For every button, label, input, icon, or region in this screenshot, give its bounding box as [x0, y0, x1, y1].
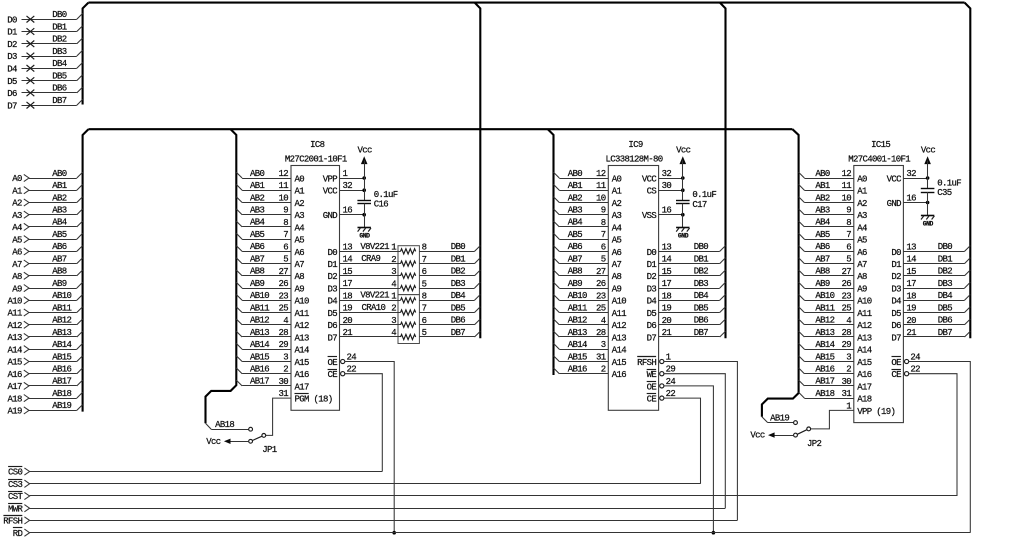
svg-text:23: 23 [596, 291, 606, 301]
port A8 / net AB8 entry [12, 267, 82, 282]
svg-text:27: 27 [596, 267, 606, 277]
svg-text:Vcc: Vcc [206, 437, 221, 447]
svg-text:0.1uF: 0.1uF [692, 190, 716, 200]
svg-text:31: 31 [596, 353, 606, 363]
IC15 pin 21 (D7) / net DB7 to data bus [891, 328, 970, 344]
port CS3 signal wire [8, 480, 700, 490]
svg-text:A11: A11 [295, 309, 310, 319]
svg-text:AB13: AB13 [568, 328, 587, 338]
address bus left vertical [83, 129, 89, 411]
port A2 / net AB2 entry [12, 193, 82, 208]
svg-text:7: 7 [283, 230, 288, 240]
no-connect X on D1 [27, 28, 35, 35]
svg-text:13: 13 [343, 242, 353, 252]
IC8 pin 18 (D4) wire to resistor [327, 291, 400, 306]
resistor CRA9 element pin 2 to pin 7 [391, 255, 426, 266]
svg-text:OE: OE [891, 358, 901, 368]
svg-text:D2: D2 [7, 40, 17, 50]
svg-text:M27C4001-10F1: M27C4001-10F1 [848, 154, 910, 164]
svg-text:A0: A0 [12, 174, 22, 184]
IC8 pin 5 (A7) wire from AB7 [236, 254, 304, 270]
svg-text:A9: A9 [295, 285, 305, 295]
svg-text:VPP (19): VPP (19) [857, 407, 895, 417]
svg-text:AB5: AB5 [815, 230, 830, 240]
IC IC15 body [854, 166, 904, 423]
IC15 pin 19 (D5) / net DB5 to data bus [891, 303, 970, 319]
svg-text:30: 30 [841, 377, 851, 387]
svg-text:GND: GND [359, 233, 370, 240]
IC9 pin 19 (D5) / net DB5 to data bus [647, 303, 726, 319]
svg-text:AB14: AB14 [568, 340, 587, 350]
svg-text:A0: A0 [857, 174, 867, 184]
svg-text:DB1: DB1 [451, 254, 466, 264]
svg-text:6: 6 [283, 242, 288, 252]
svg-text:5: 5 [846, 255, 851, 265]
svg-text:1: 1 [391, 243, 396, 253]
svg-text:Vcc: Vcc [676, 146, 691, 156]
svg-text:28: 28 [278, 328, 288, 338]
no-connect X on D7 [27, 102, 35, 109]
IC9 pin 23 (A10) wire from AB10 [554, 291, 627, 307]
svg-text:CRA10: CRA10 [362, 303, 386, 313]
svg-text:AB10: AB10 [568, 291, 587, 301]
svg-text:A9: A9 [612, 285, 622, 295]
svg-text:AB4: AB4 [568, 218, 583, 228]
svg-text:D0: D0 [647, 248, 657, 258]
IC8 pin 2 (A16) wire from AB16 [236, 365, 309, 381]
node D4 / net DB4 entry [7, 59, 82, 74]
svg-text:AB15: AB15 [815, 352, 834, 362]
svg-text:DB3: DB3 [52, 47, 67, 57]
svg-text:AB8: AB8 [52, 267, 67, 277]
svg-text:DB3: DB3 [938, 279, 953, 289]
svg-text:AB17: AB17 [250, 377, 269, 387]
IC9 pin 2 (A16) wire from AB16 [554, 365, 627, 381]
IC9 pin 6 (A6) wire from AB6 [554, 242, 622, 258]
svg-text:9: 9 [846, 206, 851, 216]
svg-text:AB14: AB14 [52, 340, 71, 350]
svg-text:A11: A11 [857, 309, 872, 319]
IC8 pin 24 (OE) wire to RD [327, 353, 394, 533]
IC15 pin 29 (A14) wire from AB14 [799, 340, 872, 356]
resistor network CRA10 body (V8V221) [398, 295, 419, 344]
svg-text:D5: D5 [891, 309, 901, 319]
data bus DB[0..7] top horizontal [88, 2, 964, 4]
svg-text:CS: CS [647, 187, 657, 197]
svg-text:AB4: AB4 [815, 218, 830, 228]
svg-text:DB6: DB6 [694, 316, 709, 326]
svg-text:A6: A6 [857, 248, 867, 258]
IC8 pin 7 (A5) wire from AB5 [236, 230, 304, 246]
svg-text:A10: A10 [8, 297, 23, 307]
svg-text:2: 2 [283, 365, 288, 375]
address bus branch to IC15 with AB19 tail [762, 129, 799, 417]
svg-text:A1: A1 [857, 187, 867, 197]
svg-text:27: 27 [841, 267, 851, 277]
svg-text:10: 10 [278, 194, 288, 204]
svg-text:9: 9 [283, 206, 288, 216]
IC9 pin 17 (D3) / net DB3 to data bus [647, 279, 726, 295]
IC9 pin 8 (A4) wire from AB4 [554, 218, 622, 234]
svg-text:DB6: DB6 [451, 316, 466, 326]
IC15 pin 7 (A5) wire from AB5 [799, 230, 867, 246]
svg-text:AB9: AB9 [815, 279, 830, 289]
svg-text:32: 32 [662, 169, 672, 179]
svg-text:D1: D1 [7, 28, 17, 38]
IC15 pin 11 (A1) wire from AB1 [799, 181, 867, 197]
svg-text:A3: A3 [12, 211, 22, 221]
IC15 pin 3 (A15) wire from AB15 [799, 352, 872, 368]
capacitor C16 0.1uF [357, 190, 397, 215]
svg-text:D4: D4 [7, 65, 17, 75]
node D7 / net DB7 entry [7, 96, 82, 111]
IC8 pin 15 (D2) wire to resistor [327, 267, 400, 282]
svg-text:OE: OE [327, 358, 337, 368]
svg-text:DB1: DB1 [938, 254, 953, 264]
ground symbol GND at IC9 [676, 215, 690, 240]
data bus drop to IC9 [720, 3, 726, 339]
svg-text:OE: OE [647, 382, 657, 392]
IC15 pin 26 (A9) wire from AB9 [799, 279, 867, 295]
svg-text:7: 7 [846, 230, 851, 240]
svg-text:DB5: DB5 [451, 303, 466, 313]
svg-text:A15: A15 [857, 358, 872, 368]
svg-text:Vcc: Vcc [750, 431, 765, 441]
svg-text:AB18: AB18 [815, 389, 834, 399]
svg-text:A14: A14 [8, 345, 23, 355]
svg-text:AB1: AB1 [815, 181, 830, 191]
svg-text:D6: D6 [327, 321, 337, 331]
svg-text:26: 26 [841, 279, 851, 289]
svg-text:30: 30 [662, 181, 672, 191]
svg-text:A16: A16 [612, 370, 627, 380]
svg-text:A4: A4 [612, 223, 622, 233]
svg-text:2: 2 [846, 365, 851, 375]
svg-text:AB6: AB6 [52, 242, 67, 252]
IC15 pin 22 (CE) wire to CST [891, 365, 957, 496]
svg-text:A4: A4 [295, 223, 305, 233]
svg-text:GND: GND [323, 211, 338, 221]
svg-text:AB11: AB11 [52, 303, 71, 313]
svg-text:AB1: AB1 [568, 181, 583, 191]
IC8 pin 31 (PGM) wire to JP1 [266, 389, 333, 435]
svg-text:D1: D1 [647, 260, 657, 270]
svg-text:2: 2 [391, 255, 396, 265]
svg-text:DB3: DB3 [694, 279, 709, 289]
IC9 pin 28 (A13) wire from AB13 [554, 328, 627, 344]
IC15 pin 18 (D4) / net DB4 to data bus [891, 291, 970, 307]
svg-text:GND: GND [923, 221, 934, 228]
resistor CRA10 element pin 4 to pin 5 [391, 328, 426, 339]
svg-text:DB6: DB6 [938, 316, 953, 326]
svg-text:Vcc: Vcc [921, 146, 936, 156]
net DB1 wire from resistor to data bus [419, 254, 480, 264]
IC15 pin 27 (A8) wire from AB8 [799, 267, 867, 283]
svg-text:DB7: DB7 [938, 328, 953, 338]
port A17 / net AB17 entry [8, 377, 83, 392]
svg-text:A13: A13 [612, 333, 627, 343]
IC8 pin 29 (A14) wire from AB14 [236, 340, 309, 356]
svg-text:A1: A1 [612, 187, 622, 197]
IC8 pin 23 (A10) wire from AB10 [236, 291, 309, 307]
svg-text:D0: D0 [891, 248, 901, 258]
svg-text:AB11: AB11 [568, 303, 587, 313]
svg-text:A2: A2 [12, 199, 22, 209]
svg-text:5: 5 [283, 255, 288, 265]
svg-text:AB15: AB15 [52, 352, 71, 362]
IC15 pin 30 (A17) wire from AB17 [799, 377, 872, 393]
ground symbol GND at IC15 [921, 203, 935, 228]
svg-text:12: 12 [841, 169, 851, 179]
IC9 pin 5 (A7) wire from AB7 [554, 254, 622, 270]
no-connect X on D6 [27, 90, 35, 97]
svg-text:JP2: JP2 [807, 439, 822, 449]
svg-text:D6: D6 [891, 321, 901, 331]
svg-text:A8: A8 [857, 272, 867, 282]
IC8 pin 26 (A9) wire from AB9 [236, 279, 304, 295]
svg-text:AB2: AB2 [250, 193, 265, 203]
IC8 pin 14 (D1) wire to resistor [327, 255, 400, 270]
no-connect X on D0 [27, 16, 35, 23]
svg-text:V8V221: V8V221 [360, 291, 389, 301]
IC8 pin 17 (D3) wire to resistor [327, 279, 400, 294]
port RFSH signal wire [3, 516, 737, 527]
svg-text:DB7: DB7 [451, 328, 466, 338]
svg-text:23: 23 [841, 291, 851, 301]
net DB5 wire from resistor to data bus [419, 303, 480, 313]
svg-text:A0: A0 [612, 174, 622, 184]
IC15 pin 10 (A2) wire from AB2 [799, 193, 867, 209]
ground symbol GND at IC8 [358, 215, 372, 240]
svg-text:AB5: AB5 [250, 230, 265, 240]
svg-text:DB0: DB0 [938, 242, 953, 252]
IC IC8 body [291, 166, 340, 411]
svg-text:CE: CE [891, 370, 901, 380]
svg-text:17: 17 [906, 279, 916, 289]
address bus branch to IC8 with AB18 tail [206, 129, 237, 423]
net DB6 wire from resistor to data bus [419, 316, 480, 326]
IC8 pin 8 (A4) wire from AB4 [236, 218, 304, 234]
svg-text:D3: D3 [891, 285, 901, 295]
svg-text:17: 17 [343, 279, 353, 289]
svg-text:AB7: AB7 [52, 254, 67, 264]
port MWR signal wire [8, 504, 725, 515]
svg-text:AB0: AB0 [52, 169, 67, 179]
svg-text:A5: A5 [857, 236, 867, 246]
svg-text:AB17: AB17 [815, 377, 834, 387]
svg-text:30: 30 [278, 377, 288, 387]
net DB3 wire from resistor to data bus [419, 279, 480, 289]
address bus AB18 tap entry [206, 423, 212, 429]
svg-text:VCC: VCC [887, 174, 903, 184]
svg-text:25: 25 [278, 304, 288, 314]
resistor CRA10 element pin 3 to pin 6 [391, 316, 426, 327]
svg-text:A13: A13 [8, 333, 23, 343]
IC9 pin 22 (CE) wire to CS3 [647, 389, 701, 484]
svg-text:M27C2001-10F1: M27C2001-10F1 [285, 154, 347, 164]
svg-text:DB7: DB7 [694, 328, 709, 338]
svg-text:AB6: AB6 [568, 242, 583, 252]
svg-text:AB9: AB9 [52, 279, 67, 289]
svg-text:AB7: AB7 [250, 254, 265, 264]
svg-text:A10: A10 [612, 297, 627, 307]
net DB7 wire from resistor to data bus [419, 328, 480, 338]
svg-text:CE: CE [327, 370, 337, 380]
svg-text:A16: A16 [857, 370, 872, 380]
svg-text:AB14: AB14 [815, 340, 834, 350]
IC8 pin 10 (A2) wire from AB2 [236, 193, 304, 209]
power Vcc symbol at IC8 [357, 146, 372, 201]
address bus AB19 tap entry [762, 417, 768, 423]
node D6 / net DB6 entry [7, 84, 82, 99]
IC8 pin 19 (D5) wire to resistor [327, 304, 400, 319]
IC IC9 body [608, 166, 658, 411]
IC9 pin 30 (CS) [647, 181, 685, 196]
port A9 / net AB9 entry [12, 279, 82, 294]
svg-text:D0: D0 [327, 248, 337, 258]
IC9 pin 4 (A12) wire from AB12 [554, 316, 627, 332]
port A0 / net AB0 entry [12, 169, 82, 184]
port A16 / net AB16 entry [8, 365, 83, 380]
svg-text:AB11: AB11 [815, 303, 834, 313]
svg-text:7: 7 [601, 230, 606, 240]
resistor CRA9 element pin 1 to pin 8 [391, 243, 426, 254]
svg-text:PGM (18): PGM (18) [295, 395, 333, 405]
svg-text:AB12: AB12 [815, 316, 834, 326]
svg-text:AB17: AB17 [52, 377, 71, 387]
power Vcc symbol at IC9 [676, 146, 691, 201]
svg-text:AB8: AB8 [815, 267, 830, 277]
IC9 pin 21 (D7) / net DB7 to data bus [647, 328, 726, 344]
IC9 pin 13 (D0) / net DB0 to data bus [647, 242, 726, 258]
svg-text:AB12: AB12 [52, 316, 71, 326]
svg-text:A2: A2 [295, 199, 305, 209]
address bus branch to IC9 [548, 129, 554, 375]
svg-text:A8: A8 [612, 272, 622, 282]
IC15 pin 25 (A11) wire from AB11 [799, 303, 872, 319]
svg-text:AB11: AB11 [250, 303, 269, 313]
svg-text:AB16: AB16 [52, 365, 71, 375]
resistor CRA9 element pin 3 to pin 6 [391, 267, 426, 278]
svg-text:IC8: IC8 [310, 140, 325, 150]
svg-text:DB4: DB4 [938, 291, 953, 301]
svg-text:4: 4 [391, 328, 396, 338]
svg-text:C16: C16 [374, 200, 389, 210]
svg-text:AB10: AB10 [815, 291, 834, 301]
svg-text:JP1: JP1 [262, 445, 277, 455]
svg-text:10: 10 [841, 194, 851, 204]
svg-text:26: 26 [278, 279, 288, 289]
port A10 / net AB10 entry [8, 291, 83, 306]
svg-text:31: 31 [841, 389, 851, 399]
svg-text:AB13: AB13 [250, 328, 269, 338]
IC8 pin 16 (GND) [323, 206, 366, 221]
svg-text:AB18: AB18 [215, 420, 234, 430]
svg-text:VSS: VSS [642, 211, 657, 221]
IC8 pin 28 (A13) wire from AB13 [236, 328, 309, 344]
svg-text:Vcc: Vcc [357, 146, 372, 156]
svg-text:DB6: DB6 [52, 84, 67, 94]
svg-text:3: 3 [283, 353, 288, 363]
svg-text:3: 3 [846, 353, 851, 363]
IC15 pin 17 (D3) / net DB3 to data bus [891, 279, 970, 295]
IC8 pin 27 (A8) wire from AB8 [236, 267, 304, 283]
svg-text:D6: D6 [647, 321, 657, 331]
svg-text:DB7: DB7 [52, 96, 67, 106]
svg-text:A9: A9 [857, 285, 867, 295]
svg-text:A15: A15 [8, 358, 23, 368]
svg-text:11: 11 [278, 181, 288, 191]
svg-text:WE: WE [647, 370, 657, 380]
svg-text:A12: A12 [612, 321, 627, 331]
svg-text:D2: D2 [891, 272, 901, 282]
svg-text:8: 8 [601, 218, 606, 228]
svg-text:3: 3 [391, 267, 396, 277]
svg-text:IC15: IC15 [871, 140, 890, 150]
svg-text:A16: A16 [295, 370, 310, 380]
svg-text:AB8: AB8 [250, 267, 265, 277]
resistor CRA9 element pin 4 to pin 5 [391, 279, 426, 290]
IC9 pin 9 (A3) wire from AB3 [554, 206, 622, 222]
IC15 pin 23 (A10) wire from AB10 [799, 291, 872, 307]
svg-text:A1: A1 [295, 187, 305, 197]
port A7 / net AB7 entry [12, 254, 82, 269]
IC8 pin 11 (A1) wire from AB1 [236, 181, 304, 197]
port A1 / net AB1 entry [12, 181, 82, 196]
port A6 / net AB6 entry [12, 242, 82, 257]
port CS0 signal wire [8, 467, 382, 478]
IC9 pin 27 (A8) wire from AB8 [554, 267, 622, 283]
svg-text:VCC: VCC [642, 174, 658, 184]
resistor CRA10 element pin 1 to pin 8 [391, 292, 426, 303]
port A5 / net AB5 entry [12, 230, 82, 245]
port A18 / net AB18 entry [8, 389, 83, 404]
svg-text:DB0: DB0 [694, 242, 709, 252]
svg-text:A6: A6 [612, 248, 622, 258]
IC9 pin 1 (RFSH) wire to RFSH [637, 353, 737, 521]
svg-text:AB16: AB16 [250, 365, 269, 375]
svg-text:A5: A5 [612, 236, 622, 246]
svg-text:11: 11 [841, 181, 851, 191]
svg-text:AB5: AB5 [568, 230, 583, 240]
svg-text:D7: D7 [891, 333, 901, 343]
node D3 / net DB3 entry [7, 47, 82, 62]
svg-text:5: 5 [422, 279, 427, 289]
IC15 pin 2 (A16) wire from AB16 [799, 365, 872, 381]
svg-text:AB4: AB4 [52, 218, 67, 228]
IC15 pin 6 (A6) wire from AB6 [799, 242, 867, 258]
svg-text:A19: A19 [8, 407, 23, 417]
svg-text:A2: A2 [857, 199, 867, 209]
svg-text:A15: A15 [612, 358, 627, 368]
svg-text:DB5: DB5 [52, 71, 67, 81]
svg-text:VPP: VPP [323, 174, 338, 184]
port RD signal wire [13, 528, 971, 537]
svg-text:D7: D7 [647, 333, 657, 343]
svg-text:CST: CST [8, 492, 24, 502]
IC15 pin 20 (D6) / net DB6 to data bus [891, 316, 970, 332]
IC9 pin 20 (D6) / net DB6 to data bus [647, 316, 726, 332]
svg-text:D5: D5 [647, 309, 657, 319]
no-connect X on D3 [27, 53, 35, 60]
svg-text:CS0: CS0 [8, 468, 23, 478]
svg-text:D7: D7 [327, 333, 337, 343]
svg-text:AB19: AB19 [52, 401, 71, 411]
IC8 pin 21 (D7) wire to resistor [327, 328, 400, 343]
IC9 pin 31 (A15) wire from AB15 [554, 352, 627, 368]
svg-text:AB4: AB4 [250, 218, 265, 228]
svg-text:RFSH: RFSH [3, 517, 22, 527]
